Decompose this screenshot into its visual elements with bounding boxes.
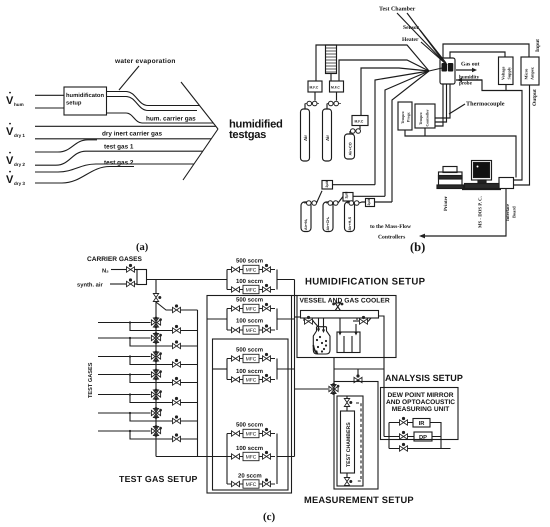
valve N2 [111, 264, 137, 272]
four way valve [329, 383, 340, 395]
svg-text:100 sccm: 100 sccm [236, 368, 263, 375]
branch B6 [130, 413, 198, 424]
wire to mass flow controllers [419, 189, 506, 239]
svg-text:2μM: 2μM [345, 192, 349, 199]
label V_dry2 [6, 152, 25, 167]
svg-text:Gas out: Gas out [461, 62, 480, 68]
svg-text:500 sccm: 500 sccm [236, 422, 263, 429]
leader water evaporation [119, 66, 139, 90]
bubbler inlet arrows [317, 318, 325, 333]
sensor heater block [442, 63, 454, 72]
feed line 3 [98, 355, 151, 357]
connector to analysis [334, 369, 384, 437]
vessel and gas cooler box [297, 296, 396, 358]
G1 junctions [227, 270, 277, 290]
funnel lower diagonal [183, 129, 218, 180]
branch B7 [130, 431, 198, 442]
bubbler flask [313, 327, 330, 354]
wire hum inlet top [35, 94, 64, 96]
vessel outlet down [333, 358, 335, 385]
svg-text:20 sccm: 20 sccm [238, 473, 262, 480]
svg-text:Amper.: Amper. [530, 67, 535, 80]
svg-text:MS - DOS P. C.: MS - DOS P. C. [478, 196, 484, 228]
valve bottom [400, 443, 408, 451]
MFC 3 box [352, 116, 368, 126]
svg-text:Heater: Heater [402, 37, 419, 43]
wire carrier out [147, 279, 228, 281]
svg-text:V: V [6, 174, 14, 186]
svg-text:Input: Input [535, 39, 541, 52]
svg-text:TEST GAS SETUP: TEST GAS SETUP [119, 474, 198, 484]
measurement outer box [334, 382, 378, 490]
svg-text:500 sccm: 500 sccm [236, 347, 263, 354]
valve DP [400, 431, 408, 439]
svg-text:Air+CH₄: Air+CH₄ [326, 216, 330, 230]
vessel manifold [301, 311, 379, 319]
valve A2 [151, 332, 162, 344]
valve A1 [151, 317, 162, 329]
collector rail [294, 280, 296, 457]
funnel upper diagonal [181, 82, 218, 129]
carrier junction box [137, 270, 147, 285]
label to the Mass-Flow [370, 224, 412, 241]
humidifier coil [326, 45, 337, 81]
measurement inner box [337, 396, 363, 486]
DP line [384, 436, 414, 438]
svg-text:Micro: Micro [524, 69, 529, 80]
svg-text:dry inert carrier gas: dry inert carrier gas [102, 131, 162, 138]
analysis bottom line [389, 448, 451, 450]
MFC 2 box [330, 81, 344, 92]
valve A7 [151, 425, 162, 437]
IR box [413, 419, 430, 428]
svg-text:Temper.: Temper. [419, 112, 423, 125]
wire filter1 out [333, 184, 376, 186]
branch B4 [130, 375, 198, 386]
svg-text:M.F.C: M.F.C [355, 120, 364, 124]
valve measurement inlet [354, 369, 362, 383]
svg-text:TEST GASES: TEST GASES [88, 362, 94, 398]
valve A5 [151, 389, 162, 401]
svg-text:Temper.: Temper. [401, 111, 405, 124]
svg-text:Output: Output [532, 89, 538, 106]
svg-text:2μM: 2μM [367, 199, 371, 206]
MFC branch G4c [227, 478, 275, 488]
feed line 7 [98, 430, 151, 432]
svg-text:Air+H₂S: Air+H₂S [348, 216, 352, 230]
svg-text:IR: IR [419, 421, 426, 427]
wire hum inlet bottom [35, 107, 64, 109]
G2 output [277, 318, 295, 320]
svg-text:hum. carrier gas: hum. carrier gas [146, 116, 196, 123]
svg-text:2μM: 2μM [325, 181, 329, 188]
filter 2uM 3 [366, 199, 375, 207]
mixing rail [197, 310, 199, 457]
valve chamber top [344, 399, 352, 407]
humidification setup box [64, 87, 107, 115]
svg-text:hum: hum [14, 102, 24, 107]
svg-text:Air: Air [303, 135, 308, 141]
svg-text:(b): (b) [410, 240, 425, 254]
MFC 1 box [308, 81, 322, 92]
svg-text:V: V [6, 155, 14, 167]
valve chamber bottom [344, 478, 352, 486]
feed line 2 [98, 337, 151, 339]
MFC branch G3a [227, 353, 275, 363]
cylinder Air+CO [345, 134, 355, 159]
svg-text:Air: Air [325, 135, 330, 141]
wire MFC2 to fan [339, 60, 429, 81]
test chambers box [341, 411, 355, 473]
svg-text:DEW POINT MIRROR: DEW POINT MIRROR [388, 392, 454, 399]
svg-text:500 sccm: 500 sccm [236, 297, 263, 304]
MFC branch G1a [227, 264, 275, 274]
vessel feed [295, 316, 301, 318]
wire MFC3 to fan [361, 68, 429, 116]
temper progr box [398, 102, 412, 130]
svg-text:Controller: Controller [426, 109, 430, 126]
wire hum carrier gas [107, 113, 214, 123]
branch B0 [156, 302, 198, 313]
wire test gas 2 bottom [35, 167, 134, 184]
valve pair airco [350, 126, 361, 135]
svg-text:synth. air: synth. air [77, 282, 104, 289]
wire filter3 riser to fan [392, 71, 429, 202]
svg-text:CARRIER GASES: CARRIER GASES [87, 256, 143, 263]
feed line 6 [98, 412, 151, 414]
valve pair CH4 [326, 197, 343, 206]
G4 junctions [227, 434, 277, 485]
IR line [389, 422, 413, 424]
G4 output [277, 456, 295, 458]
valve pair air2 [327, 92, 341, 109]
G2 input [207, 318, 227, 320]
bubbler valve [304, 316, 318, 327]
valve pair N2 [304, 191, 322, 206]
svg-text:AND OPTOACOUSTIC: AND OPTOACOUSTIC [386, 399, 455, 406]
analysis left rail [388, 423, 390, 449]
svg-text:dry 3: dry 3 [14, 181, 25, 186]
wire voltage stub [505, 85, 507, 91]
label humidified testgas [229, 119, 283, 142]
wire fan apex to chamber [429, 68, 442, 71]
svg-text:M.F.C: M.F.C [310, 86, 319, 90]
label V_dry1 [6, 123, 25, 138]
wire test gas 1 bottom [35, 151, 203, 165]
arrow gas out [456, 68, 477, 72]
valve A0 [153, 294, 161, 302]
svg-text:Thermocouple: Thermocouple [466, 101, 505, 108]
G3 output [277, 368, 295, 370]
svg-text:(c): (c) [263, 511, 276, 523]
wire MFC1 to fan [316, 45, 429, 81]
svg-text:V: V [6, 95, 14, 107]
valve IR [400, 417, 408, 425]
cylinder Air+CH4 [323, 202, 333, 232]
wire filter1 riser to fan [375, 71, 429, 185]
svg-text:Sensor: Sensor [403, 25, 420, 31]
chamber feed line [346, 396, 348, 486]
temper controller box [415, 104, 435, 128]
branch B1 [130, 323, 198, 334]
MFC branch G4a [227, 428, 275, 438]
G4 input [156, 456, 227, 458]
svg-text:setup: setup [66, 101, 82, 107]
G3 input [213, 368, 228, 370]
svg-text:test gas 1: test gas 1 [104, 144, 134, 151]
MFC branch G4b [227, 451, 275, 461]
G2 junctions [227, 309, 277, 331]
svg-text:VESSEL AND GAS COOLER: VESSEL AND GAS COOLER [300, 298, 390, 305]
svg-text:MEASURING UNIT: MEASURING UNIT [392, 406, 450, 413]
wire dry inert bottom [35, 138, 212, 140]
svg-text:test gas 2: test gas 2 [104, 160, 134, 167]
voltage supply box [499, 57, 514, 85]
svg-text:TEST CHAMBERS: TEST CHAMBERS [346, 422, 352, 467]
wire probe to interface [456, 80, 522, 180]
svg-text:Air+N₂: Air+N₂ [304, 218, 308, 230]
leader thermocouple [449, 104, 465, 114]
analysis right rail [430, 423, 441, 449]
label Interface Board [505, 204, 517, 221]
cylinder Air 1 [301, 109, 310, 161]
DP box [414, 432, 432, 441]
dew point mirror box [381, 388, 459, 440]
G3 junctions [227, 359, 277, 380]
printer [437, 167, 464, 189]
leader test chamber 2 [407, 13, 444, 62]
svg-text:DP: DP [419, 435, 427, 441]
branch B2 [130, 338, 198, 349]
test chamber box [440, 58, 455, 84]
svg-text:V: V [6, 126, 14, 138]
svg-text:dry 2: dry 2 [14, 162, 25, 167]
wire micro output down [514, 85, 530, 185]
svg-text:MEASUREMENT SETUP: MEASUREMENT SETUP [304, 495, 414, 505]
cylinder Air 2 [323, 109, 332, 161]
svg-text:ANALYSIS SETUP: ANALYSIS SETUP [385, 373, 463, 383]
cylinder Air+H2S [345, 202, 355, 232]
valve pair H2S [347, 201, 366, 206]
label V_dry3 [6, 171, 25, 186]
wire input loop [443, 44, 529, 58]
manifold column A [155, 280, 157, 457]
label humidity probe [459, 75, 480, 87]
wire test gas 1 riser [35, 140, 97, 152]
feed line 5 [98, 393, 151, 395]
svg-text:water evaporation: water evaporation [114, 58, 176, 65]
wire evaporation band bottom [107, 97, 198, 111]
manifold outlet drop [379, 316, 385, 369]
wire rail to four way valve [295, 388, 329, 390]
valve synth air [110, 278, 137, 286]
svg-text:M.F.C: M.F.C [331, 86, 340, 90]
svg-text:to the Mass-Flow: to the Mass-Flow [370, 224, 412, 230]
svg-text:Board: Board [512, 206, 517, 218]
svg-text:humidificaton: humidificaton [66, 92, 104, 99]
test gas setup inner box [213, 339, 289, 490]
valve A3 [151, 351, 162, 363]
cylinder Air+N2 [301, 202, 311, 232]
gas cooler [337, 332, 360, 353]
svg-text:N₂: N₂ [102, 269, 109, 275]
svg-text:100 sccm: 100 sccm [236, 278, 263, 285]
wire temper to interface [405, 128, 516, 178]
svg-text:HUMIDIFICATION SETUP: HUMIDIFICATION SETUP [305, 277, 426, 288]
svg-text:(a): (a) [136, 242, 149, 253]
MFC branch G2b [227, 324, 275, 334]
interface board box [499, 178, 514, 189]
wire dry inert top [35, 125, 216, 127]
leader sensor [420, 30, 446, 63]
feed line 4 [98, 373, 151, 375]
svg-text:Controllers: Controllers [378, 235, 406, 241]
svg-text:Supply: Supply [507, 66, 512, 79]
arrow humidity probe [457, 78, 482, 82]
branch B5 [130, 395, 198, 406]
MFC branch G3b [227, 374, 275, 384]
feed line 1 [98, 321, 151, 323]
G1 output [277, 279, 295, 281]
filter 2uM 2 [343, 192, 353, 201]
svg-text:testgas: testgas [229, 129, 266, 141]
MFC branch G1b [227, 284, 275, 294]
thermocouple wires [435, 84, 450, 126]
wire box top link [292, 295, 298, 297]
cooler inlet arrows [338, 318, 357, 336]
svg-text:dry 1: dry 1 [14, 133, 25, 138]
cooler valve [353, 316, 371, 324]
wire filter2 out [353, 195, 385, 197]
svg-text:Test Chamber: Test Chamber [379, 6, 416, 13]
svg-text:Voltage: Voltage [501, 67, 506, 80]
leader heater [421, 42, 447, 65]
wire test gas 2 riser [35, 164, 194, 172]
micro amper box [521, 57, 539, 85]
PC monitor [462, 161, 501, 190]
label V_hum [6, 92, 24, 107]
wire evaporation band top [107, 92, 200, 106]
svg-text:Printer: Printer [443, 195, 449, 211]
manifold vent valve [332, 303, 343, 311]
filter 2uM 1 [322, 181, 333, 190]
wire sensor to voltage supply [450, 52, 505, 58]
svg-text:100 sccm: 100 sccm [236, 445, 263, 452]
test gas setup outer box [207, 296, 292, 494]
svg-text:500 sccm: 500 sccm [236, 258, 263, 265]
wire filter2 riser to fan [385, 71, 429, 196]
wire filter3 out [375, 201, 393, 203]
MFC branch G2a [227, 303, 275, 313]
branch B3 [130, 357, 198, 368]
dashed bypass [356, 403, 361, 481]
valve pair air1 [305, 92, 319, 109]
valve A4 [151, 369, 162, 381]
leader test chamber 1 [397, 13, 442, 60]
valve A6 [151, 407, 162, 419]
svg-text:100 sccm: 100 sccm [236, 318, 263, 325]
svg-text:Air+CO: Air+CO [349, 142, 353, 155]
svg-text:Progr.: Progr. [407, 112, 411, 122]
